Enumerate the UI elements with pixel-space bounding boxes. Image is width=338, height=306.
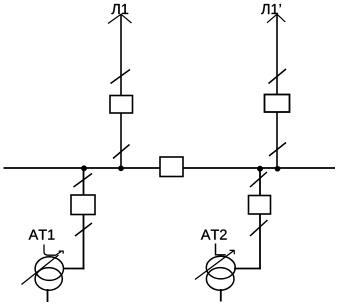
disconnector QS5 (slash on AT1 branch below bus) [74,174,93,188]
regulation arrow of AT2 [195,251,234,280]
label Л1' [261,4,281,14]
circuit breaker Q1 (rect on Л1) [110,96,133,114]
wire: line Л1' feeder vertical [276,15,278,168]
node: junction dot bus/AT2 branch [257,166,263,172]
wire: AT2 elbow horizontal [234,268,261,270]
disconnector QS3 (slash on Л1' above breaker) [269,69,287,84]
autotransformer AT1 top winding circle [35,257,63,281]
label Л1 [111,4,128,14]
node: junction dot bus/AT1 branch [81,166,87,172]
node: junction dot Л1'/bus [275,166,280,171]
autotransformer AT2 bottom winding circle [206,268,234,291]
arrowhead of AT1 regulation arrow [56,251,64,255]
disconnector QS6 (slash on AT1 branch below breaker) [75,223,92,236]
bus-tie breaker Q3 (rect on bus) [160,157,183,177]
wire: AT2 bottom stub [220,289,222,302]
wire: line Л1 feeder vertical [120,15,122,168]
disconnector QS1 (slash on Л1 above breaker) [111,70,131,84]
wire: AT1 bottom stub [47,289,49,302]
autotransformer AT2 tap hook [216,244,226,255]
disconnector QS8 (slash on AT2 branch below breaker) [250,220,268,236]
wire: AT1 branch vertical [83,168,85,269]
label AT2 [201,229,227,239]
disconnector QS4 (slash on Л1' above bus) [269,143,286,157]
busbar W (main bus) [4,167,336,169]
disconnector QS7 (slash on AT2 branch below bus) [250,172,267,187]
autotransformer AT1 bottom winding circle [35,268,62,291]
wire: AT1 elbow horizontal [64,268,84,270]
autotransformer AT2 top winding circle [206,256,235,279]
arrowhead on line Л1' [267,14,285,23]
label AT1 [29,230,55,240]
circuit breaker Q5 (rect on AT2 branch) [249,196,271,215]
wire: AT2 branch vertical [259,168,261,269]
circuit breaker Q4 (rect on AT1 branch) [71,195,95,215]
arrowhead of AT2 regulation arrow [230,250,235,254]
circuit breaker Q2 (rect on Л1') [265,95,290,113]
node: junction dot Л1/bus [118,166,123,171]
autotransformer AT1 tap hook [44,245,56,256]
regulation arrow of AT1 [22,255,59,285]
arrowhead on line Л1 [108,14,132,23]
disconnector QS2 (slash on Л1 above bus) [113,145,130,159]
